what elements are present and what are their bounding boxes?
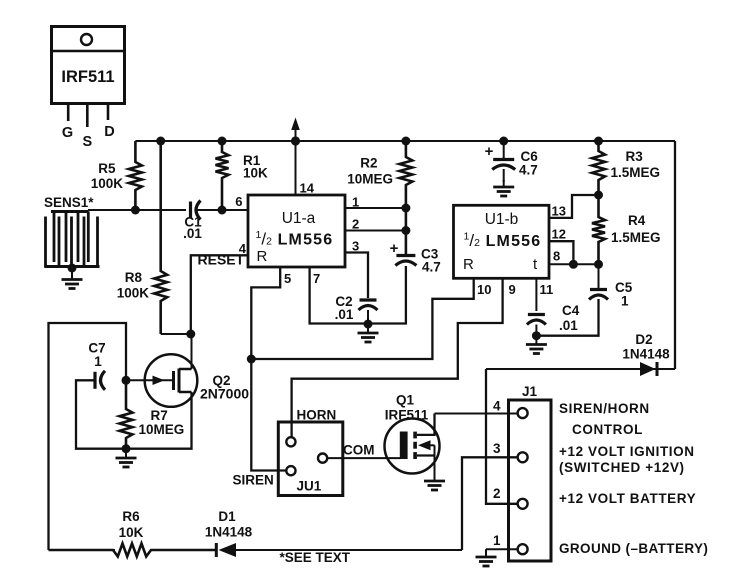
svg-text:D1: D1 [218,509,236,524]
junction dot sens/R5 [131,206,140,215]
svg-text:4: 4 [493,399,501,414]
capacitor C6 polarity + [485,143,494,160]
label C1 value .01 [183,226,202,241]
wire bottom rail right segment [236,549,462,551]
svg-text:1: 1 [94,354,102,369]
resistor R2 [399,141,412,256]
svg-text:(SWITCHED +12V): (SWITCHED +12V) [559,460,685,475]
resistor R3 [592,141,605,195]
label U1-a [282,210,316,227]
label C6 [521,149,539,164]
label R7 value 10MEG [139,422,185,437]
label R5 [98,161,116,176]
svg-text:SENS1*: SENS1* [44,195,94,210]
svg-text:RESET: RESET [198,252,245,268]
svg-text:1N4148: 1N4148 [622,347,670,362]
svg-text:Q1: Q1 [396,393,415,408]
wire to J1 pin3 [462,457,518,550]
junction dot rail/R2 [401,137,410,146]
label 1/2 LM556 (b) [464,231,542,251]
label R4 [628,213,646,228]
pin label D [104,124,114,140]
label CONTROL [572,422,643,437]
svg-text:C4: C4 [562,303,580,318]
label COM [343,443,375,458]
jumper block JU1 box [278,422,343,496]
junction dot R7 bottom [122,444,131,453]
svg-text:R6: R6 [122,509,140,524]
label D1 part 1N4148 [205,525,253,540]
junction dot sens/R1-C1 [218,206,227,215]
label (SWITCHED +12V) [559,460,685,475]
sensor SENS1 interdigitated comb [44,212,99,267]
junction dot rail/C6 [499,137,508,146]
svg-text:7: 7 [313,271,320,286]
wire bottom of Q2 source loop [126,392,192,449]
wire pin 10 staircase to pin5 column [251,278,473,359]
svg-text:U1-b: U1-b [485,211,519,228]
label JU1 [297,479,322,494]
label pin 4 (J1) [493,399,501,414]
ground C4/C5 [526,336,547,354]
label R1 value 10K [243,166,268,181]
wire left loop top [49,323,127,550]
label R8 [125,270,143,285]
wire COM to Q1 gate [327,457,400,459]
package pin D lead [107,104,110,121]
label U1-b [485,211,519,228]
label pin 2 (J1) [493,486,501,501]
svg-text:IRF511: IRF511 [61,68,114,86]
svg-text:HORN: HORN [297,408,337,423]
wire Q2 gate from C7 node [126,379,174,381]
label pin 14 [300,181,315,196]
svg-text:10K: 10K [119,525,144,540]
label R (reset pin) inside U1-a [257,248,268,265]
wire pin 2 to R2 column [345,230,406,232]
svg-text:1: 1 [493,533,501,548]
wire pin 12 [549,241,573,264]
resistor R6 [49,544,217,557]
wire pin 9 staircase to HORN [292,278,503,437]
capacitor C1 [186,201,201,220]
wire right edge column [674,141,676,369]
svg-text:.01: .01 [335,307,354,322]
wire pin 8 to R4/C5 node [549,263,599,265]
label pin 6 [235,194,242,209]
wire pin 1 to R2 column [345,207,406,209]
wire C6 from rail [503,141,505,160]
junction dot pin2/C3 column [401,226,410,235]
junction dot pin1/C3 column [401,204,410,213]
label Q1 [396,393,415,408]
label SENS1* [44,195,94,210]
jumper pin HORN [286,437,295,446]
svg-text:IRF511: IRF511 [385,408,429,423]
wire C2 bottom [367,310,369,324]
svg-text:4.7: 4.7 [422,260,441,275]
label pin 1 (J1) [493,533,501,548]
svg-text:14: 14 [300,181,315,196]
label R4 value 1.5MEG [611,230,661,245]
wire top V+ rail [135,140,675,142]
wire D2 line [486,368,675,370]
svg-text:8: 8 [553,249,560,264]
capacitor C3 polarity + [390,240,399,257]
label R6 value 10K [119,525,144,540]
label J1 [522,384,538,399]
svg-text:9: 9 [509,282,516,297]
label C3 value 4.7 [422,260,441,275]
Q1 drain stub [417,414,435,435]
svg-text:1N4148: 1N4148 [205,525,253,540]
junction dot rail/pin14 [291,136,300,145]
capacitor C2 [359,300,378,310]
junction dot pin8/R4/C5 [594,260,603,269]
label pin 12 [552,227,566,242]
jumper pin SIREN [286,466,295,475]
label SEE TEXT [280,550,351,565]
label R3 [626,149,644,164]
label C2 [335,294,352,309]
label R6 [122,509,140,524]
svg-text:GROUND (–BATTERY): GROUND (–BATTERY) [559,541,708,556]
connector pin 3 circle [518,452,528,462]
label pin 7 [313,271,320,286]
svg-text:R3: R3 [626,149,644,164]
op-amp U1-a box (1/2 LM556) [248,195,345,267]
svg-text:R7: R7 [151,408,168,423]
junction dot C7/R7/gate [122,376,131,385]
capacitor C5 [589,290,608,300]
label R3 value 1.5MEG [611,165,661,180]
wire pin 5 to SIREN [251,267,287,471]
svg-text:CONTROL: CONTROL [572,422,643,437]
svg-text:R: R [257,248,268,265]
Q1 substrate arrow [418,440,435,450]
transistor Q1 circle [385,419,440,474]
connector pin 4 circle [518,408,528,418]
junction dot pin10/pin5 [247,355,256,364]
svg-text:+: + [485,143,494,160]
label Q2 [213,373,231,388]
label D2 part 1N4148 [622,347,670,362]
ground sensor [62,268,83,289]
wire pin 4 RESET [191,255,248,334]
wire J1 pin1 to ground [486,548,518,550]
svg-text:D2: D2 [635,332,652,347]
wire C6 bottom [503,169,505,182]
junction dot R3/R4/pin13 [594,191,603,200]
package pin S lead [86,104,89,128]
svg-text:2: 2 [352,217,359,232]
svg-text:COM: COM [343,443,375,458]
label pin 8 [553,249,560,264]
package pin G lead [67,104,70,122]
label C4 value .01 [559,318,578,333]
junction dot rail/R3 [594,137,603,146]
label R inside U1-b [463,256,474,273]
wire Q2 drain [191,334,193,369]
label RESET [198,252,245,268]
label pin 2 [352,217,359,232]
junction dot sensor bottom [68,264,77,273]
label pin 3 [352,239,359,254]
wire bottom rail left segment [49,549,116,551]
wire pin 14 [295,141,297,195]
capacitor C6 [492,160,515,170]
svg-text:S: S [82,134,92,150]
ground C6 [493,180,514,196]
svg-text:*SEE TEXT: *SEE TEXT [280,550,351,565]
svg-text:R2: R2 [360,156,377,171]
svg-text:4.7: 4.7 [519,163,538,178]
svg-text:2: 2 [493,486,501,501]
label pin 10 [477,282,491,297]
label SIREN/HORN [559,401,650,416]
svg-text:.01: .01 [559,318,578,333]
svg-text:G: G [62,125,73,141]
wire C7 left loop [76,380,126,448]
label t inside U1-b [533,256,538,273]
pin label S [82,134,92,150]
svg-text:10K: 10K [243,166,268,181]
ground J1 pin1 [476,549,497,566]
transistor Q2 internal (gate bar and channel) [174,369,192,393]
label C5 value 1 [621,294,629,309]
svg-text:10MEG: 10MEG [347,172,393,187]
resistor R4 [592,195,605,264]
svg-text:3: 3 [352,239,359,254]
transistor package outline IRF511 (TO-220 top view) [52,27,125,104]
ground C2 node [358,324,379,342]
svg-text:1: 1 [621,294,629,309]
junction dot pin8/pin12 [569,260,578,269]
svg-text:100K: 100K [91,176,124,191]
svg-text:2N7000: 2N7000 [200,386,249,402]
wire C3 bottom to ground node [368,266,406,324]
wire Q1 source to ground [434,445,436,478]
svg-text:R5: R5 [98,161,116,176]
resistor R7 [120,380,133,448]
junction dot rail/R1 [218,137,227,146]
label Q2 part 2N7000 [200,386,249,402]
wire R8 bottom to reset node [161,333,191,335]
svg-text:JU1: JU1 [297,479,322,494]
capacitor C7 [91,371,106,390]
resistor R8 [154,141,167,334]
jumper pin COM [318,454,327,463]
label pin 4 [239,241,247,256]
label C2 value .01 [335,307,354,322]
wire pin 13 to R3/R4 node [549,195,599,218]
junction dot rail/R8 [156,137,165,146]
svg-text:5: 5 [284,271,291,286]
label pin 11 [540,282,554,297]
wire C5 from pin8 node [598,264,600,290]
diode D2 (1N4148) [640,362,657,376]
svg-text:+12 VOLT BATTERY: +12 VOLT BATTERY [559,491,696,506]
wire pin 3 to C2 [345,253,368,299]
label +12 VOLT BATTERY [559,491,696,506]
label R2 [360,156,377,171]
diode D1 (1N4148) [216,543,236,557]
svg-text:3: 3 [493,441,501,456]
label +12 VOLT IGNITION [559,444,695,459]
transistor Q2 circle [145,354,198,407]
svg-text:R: R [463,256,474,273]
label D1 [218,509,236,524]
label pin 1 [352,195,359,210]
svg-text:D: D [104,124,114,140]
label C7 [88,341,105,356]
capacitor C4 [527,315,546,325]
wire SENS1 input line [88,209,248,211]
label R8 value 100K [117,286,150,301]
svg-text:13: 13 [552,204,566,219]
resistor R1 [216,141,229,210]
label C1 [184,215,202,230]
svg-text:J1: J1 [522,384,538,399]
svg-text:1: 1 [352,195,359,210]
wire C4 bottom [535,325,537,336]
svg-text:100K: 100K [117,286,150,301]
label pin 13 [552,204,566,219]
label C5 [615,280,633,295]
connector J1 box [509,400,552,561]
capacitor C3 [395,256,416,266]
label pin 9 [509,282,516,297]
op-amp U1-b box (1/2 LM556) [454,205,550,278]
label C7 value 1 [94,354,102,369]
svg-text:SIREN/HORN: SIREN/HORN [559,401,650,416]
pin label G [62,125,73,141]
svg-text:1.5MEG: 1.5MEG [611,165,661,180]
svg-text:11: 11 [540,282,554,297]
Q1 gate bar (thick) [400,432,408,460]
ground Q1 source [424,479,445,491]
svg-text:SIREN: SIREN [233,473,274,488]
label R2 value 10MEG [347,172,393,187]
connector pin 2 circle [518,499,528,509]
Q2 gate arrow [153,376,165,385]
svg-text:1.5MEG: 1.5MEG [611,230,661,245]
svg-text:12: 12 [552,227,566,242]
svg-text:.01: .01 [183,226,202,241]
label SIREN [233,473,274,488]
label pin 5 [284,271,291,286]
label C4 [562,303,580,318]
label R7 [151,408,168,423]
wire Q2 source [191,392,193,449]
label D2 [635,332,652,347]
junction dot C2/pin7/C3 ground node [364,320,373,329]
label HORN [297,408,337,423]
label R1 [243,153,261,168]
wire +12V battery column [486,369,518,504]
junction dot reset/R8/Q2 drain [186,330,195,339]
label C3 [421,247,439,262]
V+ arrow [291,118,300,142]
svg-text:10: 10 [477,282,491,297]
resistor R5 [129,141,142,210]
svg-text:+12 VOLT IGNITION: +12 VOLT IGNITION [559,444,695,459]
wire pin 7 to C2 ground node [310,267,368,324]
svg-text:R4: R4 [628,213,646,228]
label R5 value 100K [91,176,124,191]
label GROUND (-BATTERY) [559,541,708,556]
label pin 3 (J1) [493,441,501,456]
label Q1 part IRF511 [385,408,429,423]
svg-text:6: 6 [235,194,242,209]
svg-text:R8: R8 [125,270,143,285]
wire pin 11 to C4 [535,278,537,311]
label C6 value 4.7 [519,163,538,178]
wire Q1 drain to J1 pin4 [435,413,518,415]
wire C5 bottom to C4 node [536,299,598,336]
connector pin 1 circle [518,544,528,554]
label 1/2 LM556 [256,229,334,249]
svg-text:U1-a: U1-a [282,210,316,227]
svg-text:10MEG: 10MEG [139,422,185,437]
junction dot C4/C5 ground [532,331,541,340]
Q1 source stub [417,454,435,456]
Q1 channel segments [413,432,417,459]
ground R7 [116,449,137,467]
